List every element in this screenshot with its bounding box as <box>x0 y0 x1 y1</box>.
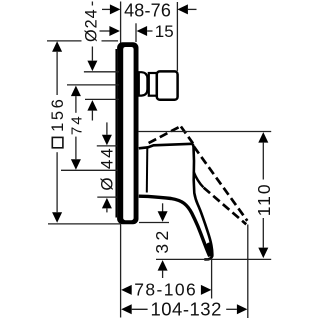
escutcheon plate <box>117 42 138 224</box>
dashed raised lever upper arm <box>194 147 247 221</box>
dimension 32 <box>139 203 172 278</box>
svg-text:Ø 44: Ø 44 <box>97 147 116 191</box>
handle hub top edge <box>139 144 192 149</box>
handle hub seam <box>146 148 149 193</box>
svg-text:110: 110 <box>254 182 274 216</box>
handle-tip extension line <box>211 260 213 299</box>
dimension diameter 24 <box>83 2 119 121</box>
svg-text:32: 32 <box>152 227 172 253</box>
spout stub ring <box>149 73 157 96</box>
dashed raised lever nose <box>181 127 193 144</box>
spout axis line <box>67 84 119 86</box>
dashed raised lever lower arm <box>204 188 247 225</box>
svg-text:78-106: 78-106 <box>134 280 197 300</box>
escutcheon flange sliver <box>115 49 117 218</box>
svg-text:104-132: 104-132 <box>150 298 221 319</box>
dashed-tip extension line <box>247 225 249 319</box>
wall face extension line top <box>120 2 122 44</box>
svg-text:Ø24: Ø24 <box>83 8 101 42</box>
dimension 78-106 <box>121 280 211 300</box>
dimension 74 <box>61 86 118 171</box>
spout-end extension line <box>176 2 178 71</box>
handle hub bottom and lever underside <box>139 196 210 256</box>
svg-text:15: 15 <box>155 22 174 41</box>
lever pivot fillet <box>194 172 204 188</box>
dimension diameter 44 <box>97 122 118 212</box>
wall face extension line bottom <box>120 224 122 318</box>
dimension 48-76 <box>102 1 197 21</box>
dimension 104-132 <box>121 298 247 319</box>
lever right edge <box>192 144 213 260</box>
lever tip fill <box>205 242 212 257</box>
svg-text:74: 74 <box>69 114 86 135</box>
svg-text:156: 156 <box>49 97 67 132</box>
dimension 110 <box>138 132 274 260</box>
svg-text:48-76: 48-76 <box>124 1 171 21</box>
dimension 15 <box>100 22 174 42</box>
dimension square 156 <box>47 41 121 224</box>
spout stub body <box>157 71 178 99</box>
spout stub neck bump <box>139 72 148 95</box>
dashed raised lever top edge <box>149 126 181 143</box>
